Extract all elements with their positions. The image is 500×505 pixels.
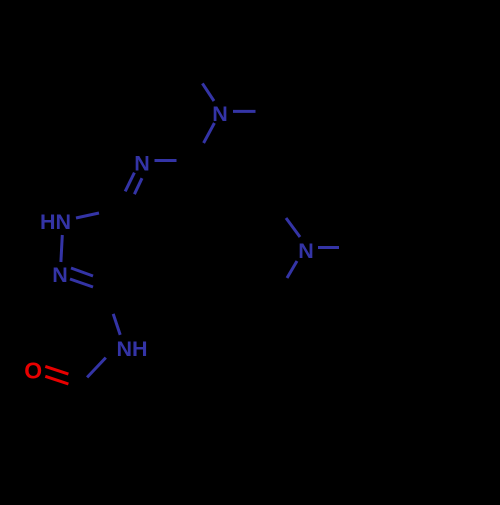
svg-text:N: N xyxy=(212,102,228,126)
svg-text:N: N xyxy=(134,152,150,176)
svg-text:N: N xyxy=(298,239,314,263)
svg-text:HN: HN xyxy=(40,210,71,234)
svg-text:N: N xyxy=(52,263,68,287)
svg-text:NH: NH xyxy=(116,337,147,361)
svg-text:O: O xyxy=(24,358,42,384)
